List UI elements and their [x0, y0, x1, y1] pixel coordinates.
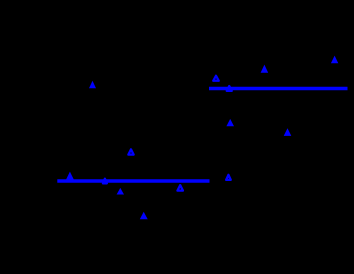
- fit line L1 (upper-right series): [209, 87, 348, 91]
- filled marker F8: [140, 212, 148, 220]
- open marker O5: [177, 185, 183, 191]
- filled marker F5: [284, 128, 292, 136]
- open marker O6: [226, 175, 231, 180]
- open marker O1: [213, 76, 219, 81]
- filled marker F1: [89, 81, 96, 89]
- filled marker F4: [226, 119, 234, 126]
- filled marker F3: [331, 56, 338, 64]
- open marker O4: [103, 179, 107, 184]
- filled marker F6: [66, 172, 74, 180]
- filled marker F7: [117, 188, 124, 195]
- open marker O2: [227, 86, 232, 91]
- fit line L2 (lower-left series): [57, 179, 209, 183]
- filled marker F2: [261, 65, 269, 73]
- open marker O3: [128, 149, 133, 154]
